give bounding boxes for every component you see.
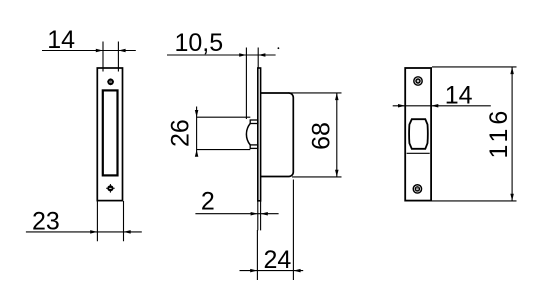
strike plate top screw hole [107,78,114,85]
svg-text:26: 26 [167,119,195,147]
roller bottom flange [250,145,258,149]
dimension 23 (strike plate width): extension lines [97,201,123,241]
roller top flange [250,120,258,124]
faceplate bottom screw hole [413,184,423,194]
lock case body (middle view) [261,93,294,177]
dimension 10,5: right arrow [258,53,265,57]
svg-text:10,5: 10,5 [174,29,223,57]
svg-text:68: 68 [308,122,336,150]
dimension 14 (strike plate): left arrow [96,49,103,53]
strike plate latch opening (inner rectangle) [103,90,118,175]
lock faceplate outline (right view) [405,68,431,201]
dimension 68: top arrow [335,93,339,100]
dimension 24: dimension line [240,270,304,272]
dimension 14 (strike plate): dimension line [42,50,136,52]
svg-text:14: 14 [445,81,473,109]
dimension 116: top arrow [510,67,513,74]
dimension 14 (right): left arrow [398,104,405,108]
dimension 23: dimension line [26,231,142,233]
strike plate bottom screw hole [106,184,115,193]
dimension 24 (case depth): extension lines [257,180,293,281]
dimension 10,5: left arrow [239,53,246,57]
dimension 26: bottom arrow [195,150,199,157]
dimension 68 (case height): extension lines [288,93,342,177]
svg-text:2: 2 [201,187,215,215]
svg-text:24: 24 [263,246,291,274]
dimension 68: dimension line [336,93,338,177]
dimension 116 (faceplate height): extension lines [432,67,517,201]
faceplate top screw hole [413,76,423,86]
dimension 2: left arrow [251,212,258,216]
dimension 26: dimension line [196,107,198,157]
dimension 14 (right faceplate): dimension line [393,105,491,107]
strike plate outer outline (left view) [97,68,122,201]
dimension 116: bottom arrow [510,194,513,201]
dimension 24: right arrow [293,269,300,273]
roller bolt (front view) [409,119,428,149]
dimension 24: left arrow [250,269,257,273]
latch slot lower edge line [407,152,430,154]
dimension 26: top arrow [195,110,199,117]
svg-text:23: 23 [32,207,60,235]
dimension 116: dimension line [511,67,513,201]
dimension 2: dimension line [195,213,278,215]
stray dot mark near 10,5 leader [278,47,280,49]
dimension 2 (faceplate thickness): extension lines [258,201,261,230]
faceplate edge view (middle view thin plate) [258,68,261,201]
dimension 26 (roller height): extension lines [197,117,251,149]
dimension 10,5: extension lines [246,48,258,120]
svg-text:14: 14 [47,26,75,54]
dimension 23: left arrow [90,230,97,234]
dimension 14 (right): right arrow [431,104,438,108]
dimension 14 (strike plate opening): extension lines [103,42,118,72]
roller arc (side view bulge) [246,124,250,145]
dimension 10,5: dimension line [167,54,276,56]
dimension 68: bottom arrow [335,170,339,177]
dimension 14 (strike plate): right arrow [118,49,125,53]
dimension 2: right arrow [261,212,268,216]
svg-text:116: 116 [485,107,513,159]
dimension 23: right arrow [124,230,131,234]
